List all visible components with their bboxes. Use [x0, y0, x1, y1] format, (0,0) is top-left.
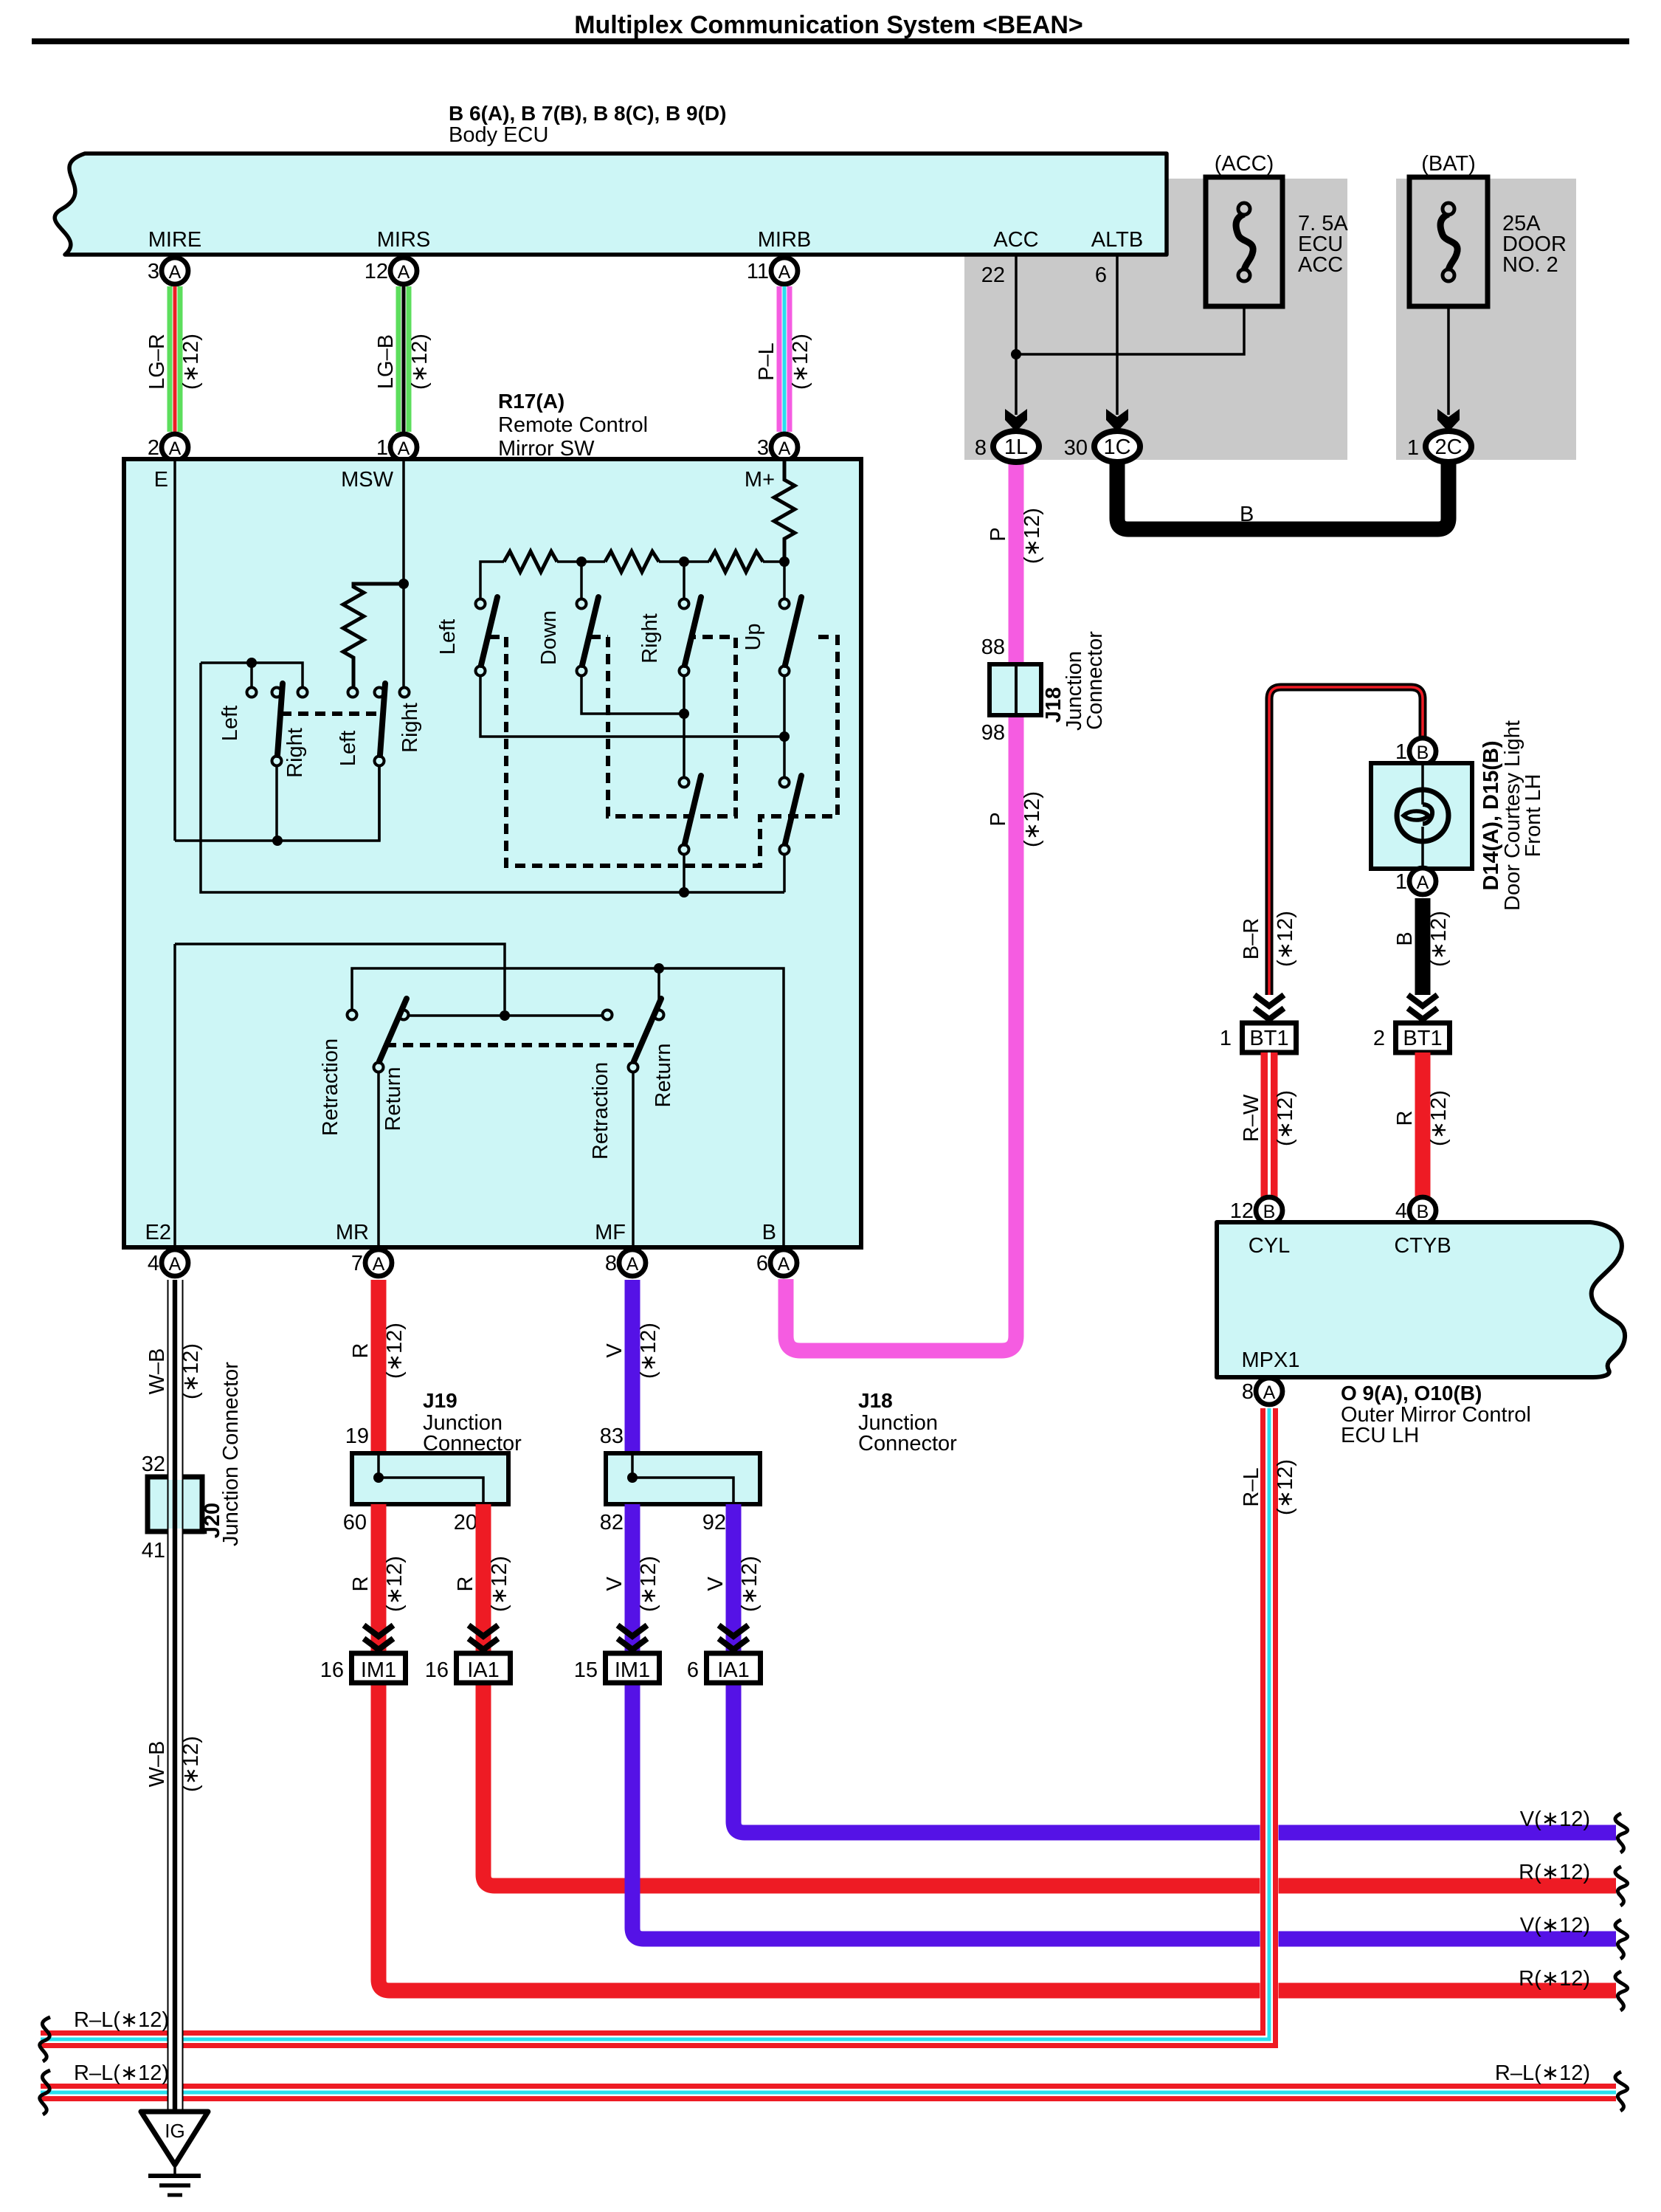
- select switch pair 1 terminals: [247, 688, 257, 697]
- svg-text:8: 8: [975, 436, 987, 460]
- ground hatch: [148, 2174, 201, 2178]
- MSW resistor branch: [398, 579, 409, 589]
- lower switch (Up2): [780, 778, 790, 788]
- pin 8(A) MF: [619, 1250, 646, 1276]
- chevron arrow into IM1 (R): [364, 1625, 393, 1636]
- svg-text:92: 92: [702, 1511, 726, 1534]
- node on chain (Down): [576, 557, 587, 567]
- svg-text:A: A: [1263, 1382, 1276, 1403]
- svg-text:(ACC): (ACC): [1215, 152, 1274, 176]
- svg-text:D14(A), D15(B): D14(A), D15(B): [1479, 740, 1503, 890]
- svg-text:Front LH: Front LH: [1522, 774, 1545, 858]
- svg-text:R–L(∗12): R–L(∗12): [74, 2061, 169, 2085]
- svg-text:E2: E2: [145, 1221, 171, 1244]
- svg-text:15: 15: [574, 1658, 598, 1682]
- wire B-R door light to BT1-1: [1269, 687, 1423, 995]
- svg-text:88: 88: [981, 635, 1005, 659]
- dashed link select pair: [281, 712, 381, 716]
- pin 6(A) B: [770, 1250, 797, 1276]
- svg-text:Right: Right: [398, 703, 422, 753]
- svg-text:Remote Control: Remote Control: [498, 413, 648, 437]
- svg-text:6: 6: [1095, 263, 1107, 287]
- connector BT1 no.1: [1243, 1023, 1296, 1052]
- svg-text:Connector: Connector: [858, 1432, 957, 1455]
- resistor M+: [774, 459, 795, 562]
- pin 12(A) MIRS: [390, 258, 417, 284]
- dashed loop A (Left-Up link): [489, 635, 506, 639]
- svg-text:3: 3: [757, 436, 769, 460]
- svg-text:IG: IG: [165, 2120, 184, 2142]
- pin 1(A) MSW: [390, 434, 417, 461]
- svg-text:4: 4: [148, 1252, 159, 1275]
- svg-text:(∗12): (∗12): [179, 334, 203, 390]
- wire H1 E to pivots: [175, 766, 379, 841]
- svg-text:R(∗12): R(∗12): [1519, 1861, 1590, 1884]
- svg-text:P: P: [987, 527, 1010, 541]
- svg-text:7: 7: [351, 1252, 363, 1275]
- break squiggle R2: [1615, 1971, 1628, 2011]
- svg-text:2C: 2C: [1434, 435, 1462, 459]
- svg-text:2: 2: [1373, 1027, 1385, 1050]
- svg-text:Junction Connector: Junction Connector: [219, 1362, 243, 1546]
- svg-text:ALTB: ALTB: [1091, 228, 1143, 252]
- svg-text:4: 4: [1395, 1199, 1407, 1223]
- svg-text:ACC: ACC: [1298, 253, 1343, 277]
- wire select-left terminals header: [201, 663, 303, 686]
- svg-text:(∗12): (∗12): [637, 1323, 660, 1379]
- svg-text:R–L(∗12): R–L(∗12): [74, 2008, 169, 2032]
- svg-text:16: 16: [425, 1658, 449, 1682]
- svg-text:Right: Right: [638, 613, 662, 664]
- svg-text:IA1: IA1: [467, 1658, 500, 1682]
- svg-text:V(∗12): V(∗12): [1520, 1914, 1590, 1937]
- wire R IA1 elbow to right edge: [483, 1683, 1616, 1886]
- svg-text:12: 12: [1230, 1199, 1254, 1223]
- svg-text:A: A: [169, 262, 182, 283]
- wire R MR to J19: [371, 1280, 387, 1453]
- svg-text:R–L: R–L: [1240, 1467, 1263, 1506]
- wire common H2: [201, 663, 784, 892]
- svg-text:A: A: [1417, 872, 1429, 893]
- svg-text:1L: 1L: [1004, 435, 1028, 459]
- svg-text:BT1: BT1: [1403, 1027, 1442, 1050]
- pin 4(A) E2: [162, 1250, 188, 1276]
- chevron arrow into IA1 (R): [469, 1625, 498, 1636]
- svg-text:A: A: [778, 1254, 790, 1275]
- svg-text:41: 41: [142, 1539, 165, 1562]
- fuse DOOR NO.2 25A box: [1409, 177, 1488, 306]
- switch Up: [780, 599, 790, 609]
- svg-text:Body ECU: Body ECU: [449, 123, 548, 147]
- wire R IM1 elbow to right edge: [379, 1683, 1616, 1991]
- wire R-L MPX1 to bus upper: [41, 1408, 1276, 2046]
- svg-text:MR: MR: [336, 1221, 369, 1244]
- svg-text:V(∗12): V(∗12): [1520, 1808, 1590, 1831]
- svg-text:P–L: P–L: [755, 342, 778, 381]
- wire H-A E2 to retraction common: [175, 944, 505, 1010]
- svg-text:(∗12): (∗12): [179, 1343, 203, 1399]
- wire lower switches common: [683, 855, 686, 892]
- svg-text:MPX1: MPX1: [1242, 1348, 1300, 1372]
- wire E2 vertical: [173, 944, 176, 1247]
- svg-text:A: A: [169, 1254, 182, 1275]
- svg-text:A: A: [373, 1254, 385, 1275]
- svg-text:83: 83: [600, 1424, 624, 1448]
- break curl bus2 left: [40, 2070, 50, 2115]
- svg-text:B: B: [762, 1221, 776, 1244]
- svg-text:R–L(∗12): R–L(∗12): [1495, 2061, 1590, 2085]
- pin 1(B) door light top: [1409, 738, 1436, 765]
- svg-text:32: 32: [142, 1453, 165, 1476]
- node chain/M+ junction: [779, 557, 790, 567]
- pin 7(A) MR: [365, 1250, 392, 1276]
- svg-text:W–B: W–B: [145, 1741, 169, 1788]
- svg-text:R: R: [349, 1343, 373, 1359]
- fuse ACC element: [1236, 214, 1253, 270]
- pin 11(A) MIRB: [771, 258, 798, 284]
- svg-text:(∗12): (∗12): [408, 334, 432, 390]
- chevron arrow into BT1-1: [1254, 995, 1284, 1006]
- svg-text:ACC: ACC: [993, 228, 1038, 252]
- svg-text:Multiplex Communication System: Multiplex Communication System <BEAN>: [574, 11, 1083, 39]
- svg-text:IM1: IM1: [615, 1658, 650, 1682]
- svg-text:1: 1: [1395, 870, 1407, 894]
- resistor chain R1: [504, 551, 557, 572]
- svg-text:A: A: [169, 438, 182, 459]
- title rule: [32, 38, 1629, 44]
- svg-text:A: A: [398, 262, 410, 283]
- retraction switch 1: [348, 1010, 357, 1020]
- svg-text:Left: Left: [218, 706, 242, 741]
- wire Left bottom to Up column: [480, 676, 784, 737]
- svg-text:6: 6: [756, 1252, 768, 1275]
- break squiggle bus2 right: [1615, 2072, 1628, 2111]
- svg-text:8: 8: [1242, 1380, 1254, 1404]
- svg-text:Retraction: Retraction: [319, 1038, 342, 1136]
- bus R-L lower (full width): [41, 2083, 1616, 2102]
- svg-text:(∗12): (∗12): [488, 1556, 511, 1612]
- wire V IM1 elbow to right edge: [632, 1683, 1616, 1939]
- break squiggle V2: [1615, 1920, 1628, 1959]
- resistor chain R2: [605, 551, 659, 572]
- svg-text:LG–R: LG–R: [145, 334, 169, 390]
- svg-text:B–R: B–R: [1240, 918, 1263, 959]
- wire B door light to BT1-2: [1415, 898, 1431, 995]
- svg-text:R–W: R–W: [1240, 1094, 1263, 1142]
- connector IA1 (R): [457, 1653, 511, 1683]
- svg-text:B 6(A), B 7(B), B 8(C), B 9(D): B 6(A), B 7(B), B 8(C), B 9(D): [449, 102, 726, 125]
- svg-text:6: 6: [687, 1658, 699, 1682]
- svg-text:Connector: Connector: [1083, 631, 1107, 730]
- svg-text:Left: Left: [336, 731, 360, 766]
- wire Right column down: [683, 676, 686, 777]
- break squiggle V1: [1615, 1813, 1628, 1853]
- connector oval 2C: [1426, 431, 1471, 462]
- svg-text:(∗12): (∗12): [738, 1556, 762, 1612]
- fuse ECU ACC 7.5A box: [1206, 177, 1282, 306]
- wire LG-B MIRS to MSW: [396, 286, 401, 432]
- dashed link retraction arms: [386, 1043, 638, 1047]
- svg-text:1: 1: [1220, 1027, 1232, 1050]
- select switch pair 2 terminals: [348, 688, 358, 697]
- svg-text:(∗12): (∗12): [179, 1736, 203, 1792]
- svg-text:(∗12): (∗12): [637, 1556, 660, 1612]
- svg-text:B: B: [1263, 1202, 1276, 1222]
- svg-text:(∗12): (∗12): [1274, 911, 1297, 967]
- svg-text:CTYB: CTYB: [1394, 1234, 1451, 1258]
- wire ALTB pin6 to 1C: [1116, 255, 1119, 415]
- svg-text:MSW: MSW: [341, 468, 394, 492]
- wire fuse BAT to 2C: [1447, 306, 1450, 415]
- svg-text:(∗12): (∗12): [1021, 791, 1044, 847]
- svg-text:ECU LH: ECU LH: [1341, 1424, 1419, 1447]
- svg-text:2: 2: [148, 436, 159, 460]
- Remote Control Mirror SW box R17(A): [124, 459, 861, 1247]
- ground IG: [141, 2112, 208, 2165]
- svg-text:(∗12): (∗12): [1427, 1090, 1451, 1146]
- pin 3(A) MIRE: [162, 258, 188, 284]
- break squiggle R1: [1615, 1867, 1628, 1906]
- svg-text:(∗12): (∗12): [789, 334, 812, 390]
- svg-text:(∗12): (∗12): [1274, 1090, 1297, 1146]
- wire H-B B to retraction contacts: [352, 968, 784, 1247]
- svg-text:B: B: [1417, 742, 1429, 763]
- chevron arrow into BT1-2: [1408, 995, 1437, 1006]
- lower switch (Right2): [680, 778, 689, 788]
- wire B thick 1C to 2C: [1117, 460, 1448, 529]
- svg-text:E: E: [154, 468, 168, 492]
- wire fuse ACC to junction: [1016, 306, 1244, 354]
- svg-text:12: 12: [365, 260, 388, 283]
- wire H-C return contacts: [404, 1014, 607, 1017]
- svg-text:Up: Up: [742, 623, 765, 650]
- pin 1(A) door light bottom: [1409, 868, 1436, 895]
- pin 8(A) MPX1: [1256, 1378, 1282, 1405]
- wire LG-R MIRE to E: [168, 286, 173, 432]
- svg-text:1: 1: [1407, 436, 1419, 460]
- switch Right: [680, 599, 689, 609]
- select switch pair 1 arm: [272, 757, 282, 766]
- svg-text:MF: MF: [595, 1221, 626, 1244]
- svg-text:3: 3: [148, 260, 159, 283]
- connector IA1 (V): [707, 1653, 761, 1683]
- svg-text:B: B: [1417, 1202, 1429, 1222]
- resistor chain top: left stub: [480, 562, 504, 598]
- wire V IA1 elbow to right edge: [733, 1683, 1616, 1833]
- wire Up column down: [783, 676, 786, 777]
- select switch pair 2 arm: [375, 757, 384, 766]
- wire E vertical: [173, 459, 176, 841]
- svg-text:(∗12): (∗12): [1274, 1459, 1297, 1515]
- Outer Mirror Control ECU box O9(A),O10(B): [1217, 1222, 1625, 1377]
- pin 12(B) CYL: [1256, 1197, 1282, 1224]
- svg-text:1C: 1C: [1103, 435, 1130, 459]
- svg-text:NO. 2: NO. 2: [1502, 253, 1558, 277]
- wire ACC pin22 to 1L: [1015, 255, 1018, 415]
- connector IM1 (R): [352, 1653, 406, 1683]
- svg-text:R: R: [1393, 1111, 1417, 1126]
- chevron arrow into IM1 (V): [618, 1625, 647, 1636]
- svg-text:R(∗12): R(∗12): [1519, 1967, 1590, 1991]
- svg-text:BT1: BT1: [1249, 1027, 1288, 1050]
- svg-text:IM1: IM1: [361, 1658, 396, 1682]
- wire V MF to J18: [625, 1280, 640, 1453]
- svg-text:(∗12): (∗12): [1021, 508, 1044, 564]
- svg-text:(∗12): (∗12): [1427, 911, 1451, 967]
- retraction switch 2: [603, 1010, 612, 1020]
- svg-text:MIRE: MIRE: [148, 228, 202, 252]
- switch Left: [476, 599, 486, 609]
- svg-text:A: A: [778, 262, 791, 283]
- svg-text:Retraction: Retraction: [589, 1062, 612, 1160]
- svg-text:J18: J18: [858, 1389, 893, 1412]
- svg-text:A: A: [626, 1254, 639, 1275]
- svg-text:22: 22: [981, 263, 1005, 287]
- svg-text:LG–B: LG–B: [374, 334, 398, 389]
- grey harness block right (BAT fuse area): [1396, 179, 1576, 460]
- svg-text:V: V: [704, 1577, 728, 1591]
- wire P pink 1L to mirror SW pin B: [786, 460, 1016, 1351]
- pin 4(B) CTYB: [1409, 1197, 1436, 1224]
- wire chain seg: [557, 560, 605, 563]
- svg-text:IA1: IA1: [717, 1658, 750, 1682]
- svg-text:J19: J19: [423, 1389, 457, 1412]
- chevron arrow into IA1 (V): [719, 1625, 748, 1636]
- svg-text:Return: Return: [652, 1043, 675, 1107]
- svg-text:1: 1: [376, 436, 388, 460]
- svg-text:A: A: [398, 438, 410, 459]
- break curl bus1 left: [40, 2017, 50, 2061]
- svg-text:Left: Left: [436, 619, 460, 655]
- svg-text:(∗12): (∗12): [383, 1556, 407, 1612]
- svg-text:O 9(A), O10(B): O 9(A), O10(B): [1341, 1382, 1482, 1405]
- svg-text:60: 60: [343, 1511, 367, 1534]
- bulb symbol: [1397, 790, 1448, 841]
- wire P-L MIRB to M+: [777, 286, 782, 432]
- svg-text:16: 16: [320, 1658, 344, 1682]
- svg-text:MIRS: MIRS: [377, 228, 431, 252]
- dashed loop B (Down-Right link): [590, 635, 608, 639]
- svg-text:MIRB: MIRB: [758, 228, 812, 252]
- wire chain seg: [659, 560, 709, 563]
- svg-text:V: V: [603, 1343, 626, 1358]
- svg-text:30: 30: [1064, 436, 1088, 460]
- svg-text:R: R: [454, 1577, 477, 1592]
- arrowhead into 1C: [1106, 409, 1128, 432]
- fuse BAT element: [1440, 214, 1457, 270]
- wire chain seg to M+: [763, 560, 784, 563]
- wire R BT1-2 to CTYB: [1415, 1052, 1431, 1200]
- pin 2(A) E: [162, 434, 188, 461]
- wire MSW vertical: [402, 459, 405, 686]
- svg-text:M+: M+: [745, 468, 775, 492]
- svg-text:V: V: [603, 1577, 626, 1591]
- door courtesy light D14(A),D15(B): [1371, 763, 1472, 869]
- svg-text:R: R: [349, 1577, 373, 1592]
- svg-text:W–B: W–B: [145, 1348, 169, 1395]
- svg-text:(BAT): (BAT): [1421, 152, 1476, 176]
- wire MF vertical: [632, 1072, 635, 1247]
- connector BT1 no.2: [1396, 1023, 1450, 1052]
- svg-text:Connector: Connector: [423, 1432, 522, 1455]
- wire Down to Right column: [581, 676, 684, 714]
- connector IM1 (V): [606, 1653, 660, 1683]
- connector oval 1L: [993, 431, 1039, 462]
- svg-text:1: 1: [1395, 740, 1407, 764]
- svg-text:Right: Right: [283, 728, 307, 778]
- svg-text:R17(A): R17(A): [498, 390, 564, 413]
- junction node on ACC wire: [1011, 349, 1021, 359]
- Body ECU box B6(A),B7(B),B8(C),B9(D): [55, 154, 1167, 255]
- wire MR vertical: [377, 1072, 380, 1247]
- grey harness block left (ACC fuse area): [964, 179, 1347, 460]
- wire W-B E2 to ground: [168, 1280, 184, 2112]
- svg-text:Down: Down: [537, 610, 561, 665]
- svg-text:82: 82: [600, 1511, 624, 1534]
- svg-text:B: B: [1393, 931, 1417, 945]
- svg-text:CYL: CYL: [1249, 1234, 1290, 1258]
- svg-text:20: 20: [454, 1511, 477, 1534]
- pin 3(A) M+: [771, 434, 798, 461]
- resistor chain R3: [709, 551, 763, 572]
- node on chain (Right): [679, 557, 689, 567]
- switch Down: [577, 599, 587, 609]
- connector oval 1C: [1094, 431, 1140, 462]
- arrowhead into 1L: [1005, 409, 1027, 432]
- svg-text:Return: Return: [381, 1067, 405, 1131]
- svg-text:8: 8: [605, 1252, 617, 1275]
- wire R-W BT1-1 to CYL: [1261, 1052, 1278, 1200]
- svg-text:(∗12): (∗12): [383, 1323, 407, 1379]
- svg-text:11: 11: [747, 260, 769, 283]
- svg-text:A: A: [778, 438, 791, 459]
- svg-text:19: 19: [345, 1424, 369, 1448]
- svg-text:98: 98: [981, 721, 1005, 745]
- arrowhead into 2C: [1437, 409, 1460, 432]
- svg-text:B: B: [1240, 503, 1254, 526]
- svg-text:P: P: [987, 812, 1010, 826]
